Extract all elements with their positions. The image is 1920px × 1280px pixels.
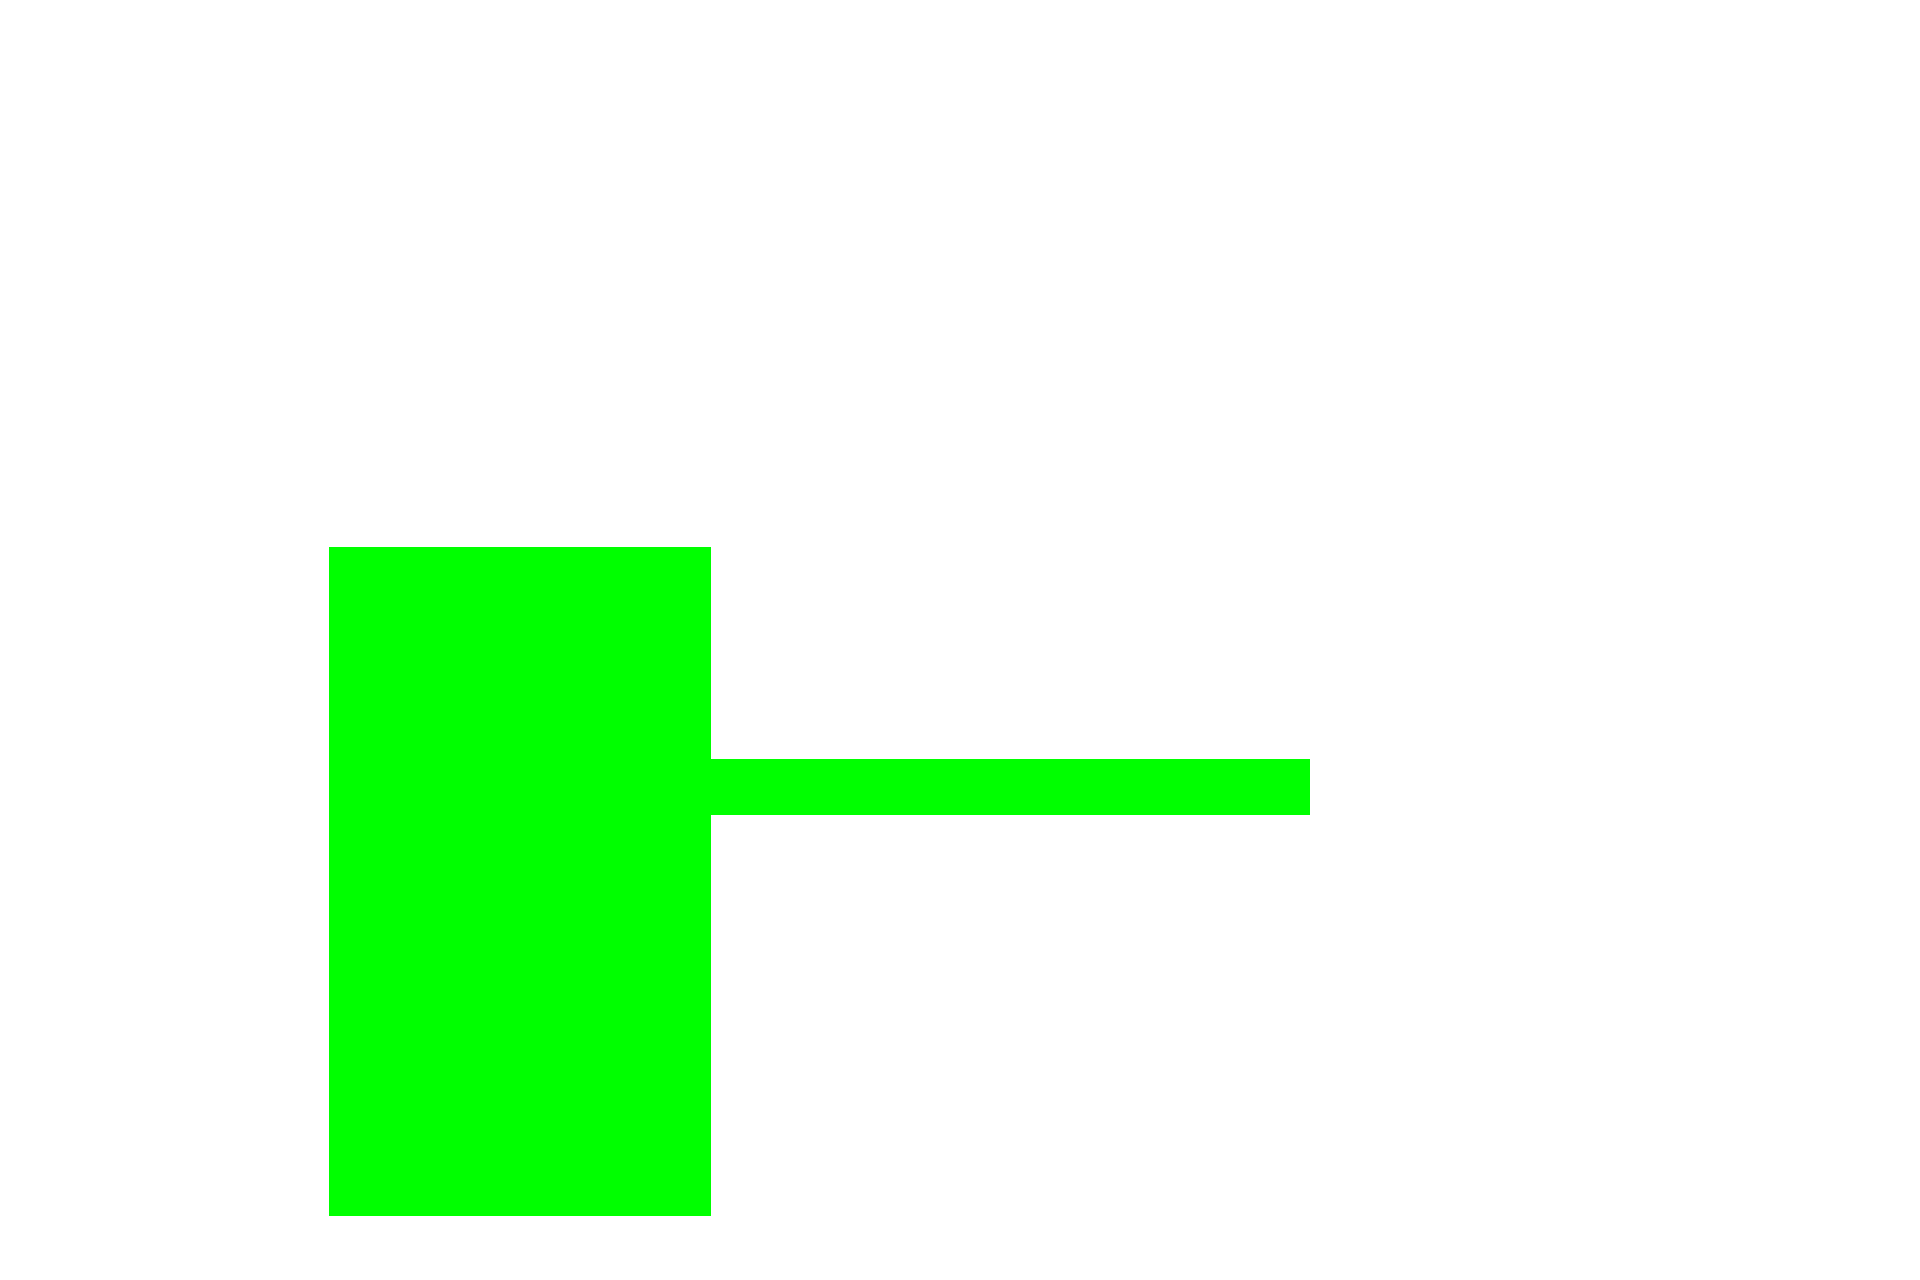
green vertical rectangle (329, 547, 711, 1216)
green horizontal bar (711, 759, 1310, 815)
